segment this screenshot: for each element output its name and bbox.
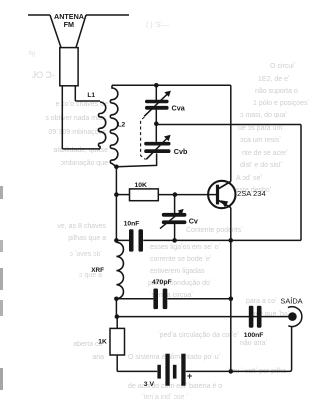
- svg-text:ɔca um resisʼ: ɔca um resisʼ: [240, 136, 281, 144]
- svg-text:corrente se bode ʼeʼ: corrente se bode ʼeʼ: [150, 255, 212, 263]
- svg-text:nte de se acerʼ: nte de se acerʼ: [242, 149, 288, 157]
- svg-text:1 pólo e posiçoesʼ: 1 pólo e posiçoesʼ: [253, 99, 309, 107]
- node 10nF left / XRF top: [114, 238, 119, 243]
- svg-text:para a coʼ: para a coʼ: [246, 297, 277, 305]
- inductor L1: [98, 102, 105, 149]
- node top rail / Cva: [154, 83, 159, 88]
- svg-text:O sistema é alimentado poʼ uʼ: O sistema é alimentado poʼ uʼ: [128, 353, 221, 361]
- svg-text:Cvb: Cvb: [174, 147, 188, 156]
- wire: right rail down: [300, 125, 302, 241]
- faint bleed-through text background: [29, 51, 108, 361]
- svg-text:ʼtenʼa indʼ ɔse ʼ: ʼtenʼa indʼ ɔse ʼ: [142, 393, 188, 401]
- svg-text:O circuiʼ: O circuiʼ: [270, 62, 296, 70]
- wire: 1K top lead: [116, 317, 118, 329]
- wire: 1K bottom lead: [116, 355, 118, 371]
- antenna top line right: [86, 14, 129, 16]
- capacitor 470pF plates: [153, 289, 167, 310]
- svg-text:fig: fig: [29, 51, 35, 57]
- inductor XRF: [116, 242, 123, 298]
- variable capacitor Cva: [144, 91, 171, 117]
- svg-text:ɈO Ↄ-: ɈO Ↄ-: [32, 70, 55, 80]
- wire: stem between Cva and Cvb: [155, 109, 157, 141]
- variable capacitor Cvb: [144, 135, 170, 160]
- svg-text:ʼpedʼa circulação da corʼeʼ: ʼpedʼa circulação da corʼeʼ: [158, 331, 239, 339]
- resistor 1K: [110, 328, 125, 355]
- wire: Cv stem bottom: [174, 224, 176, 240]
- wire: battery right to SAIDA ground: [186, 326, 292, 371]
- svg-text:XRF: XRF: [91, 267, 104, 274]
- svg-text:10nF: 10nF: [124, 220, 140, 227]
- wire: top rail L2 to collector: [112, 84, 231, 86]
- node emitter / battery rail: [229, 369, 234, 374]
- svg-text:A ɔdʼ seʼ: A ɔdʼ seʼ: [236, 174, 263, 182]
- page edge marks: [0, 186, 3, 390]
- svg-text:Cv: Cv: [189, 217, 198, 226]
- variable capacitor Cv: [160, 209, 186, 229]
- antenna funnel right side: [76, 15, 86, 48]
- wire: Cva stem top: [155, 85, 157, 100]
- wire: XRF bottom to output junction: [115, 299, 117, 317]
- wire: battery left: [117, 370, 157, 372]
- svg-text:10K: 10K: [135, 182, 148, 189]
- svg-text:de acordo com estʼ bateria é: de acordo com estʼ bateria é o: [128, 382, 222, 390]
- svg-text:ana: ana: [92, 354, 104, 361]
- svg-text:2SA 234: 2SA 234: [237, 189, 266, 198]
- svg-text:100nF: 100nF: [244, 332, 264, 339]
- wire: antenna right lead down: [74, 86, 76, 101]
- inductor L2: [110, 85, 118, 167]
- wire: antenna right lead to L1 top: [75, 100, 100, 102]
- node Cv bottom: [172, 238, 177, 243]
- svg-text:FM: FM: [64, 20, 74, 29]
- resistor 10K: [130, 189, 159, 201]
- node base/Cv top: [173, 192, 178, 197]
- svg-text:ɔ masi, do quaʼ: ɔ masi, do quaʼ: [240, 111, 288, 119]
- wire: L1 bottom to antenna left lead: [62, 148, 100, 150]
- wire: base wire 10K left: [116, 194, 129, 196]
- wire: 470pF node wire: [116, 298, 230, 300]
- wire: Cv stem top: [174, 195, 176, 213]
- svg-text:+: +: [187, 371, 192, 381]
- wire: left vertical L2 bottom to 10nF junction: [115, 167, 117, 241]
- capacitor 100nF plates: [249, 306, 262, 328]
- wire: base wire 10K to transistor base: [158, 194, 217, 196]
- svg-text:470pF: 470pF: [152, 279, 172, 286]
- node 470pF right / emitter: [229, 297, 234, 302]
- node Cva-Cvb junction: [154, 121, 159, 126]
- node XRF bottom / 470pF: [114, 297, 119, 302]
- svg-text:ɔmbinação que: ɔmbinação que: [61, 160, 109, 167]
- node L2 bottom: [114, 165, 119, 170]
- capacitor 10nF plates: [129, 229, 143, 251]
- transistor Q1 2SA234: [208, 181, 235, 208]
- svg-text:não suporta o: não suporta o: [255, 88, 298, 95]
- wire: collector vertical: [230, 85, 232, 181]
- antenna funnel left side: [50, 15, 61, 48]
- svg-text:Contente poderitsʼ: Contente poderitsʼ: [186, 226, 243, 234]
- svg-text:esses ligaʼos em seʼ oʼ: esses ligaʼos em seʼ oʼ: [150, 243, 220, 251]
- node output / 1K top: [115, 314, 120, 319]
- svg-text:( ) ʼSʼ—: ( ) ʼSʼ—: [146, 21, 169, 29]
- wire: output wire to SAIDA: [117, 316, 291, 318]
- svg-text:L1: L1: [87, 92, 95, 99]
- svg-text:ve, as 8 chaves: ve, as 8 chaves: [57, 223, 106, 230]
- svg-text:ɔ ʼaves ɔbʼ: ɔ ʼaves ɔbʼ: [69, 250, 102, 258]
- node emitter / C wire: [229, 238, 234, 243]
- svg-text:SAÍDA: SAÍDA: [280, 296, 302, 305]
- svg-text:não atraʼ: não atraʼ: [240, 339, 268, 347]
- wire: antenna left lead down: [61, 86, 63, 149]
- dashed gang link Cva-Cvb: [141, 117, 146, 160]
- wire: horizontal node C 10nF/Cv/emitter: [116, 239, 301, 241]
- wire: tank bottom Cvb to L2 bottom junction: [116, 153, 156, 166]
- output jack SAIDA: [288, 307, 302, 327]
- svg-text:1E2, de eʼ: 1E2, de eʼ: [258, 75, 290, 83]
- battery B1 3V: [157, 354, 185, 386]
- wire: node B to right rail: [156, 124, 301, 126]
- svg-text:estiverem ligadas: estiverem ligadas: [150, 268, 205, 275]
- antenna top line left: [28, 14, 50, 16]
- svg-text:Cva: Cva: [172, 104, 186, 113]
- node base/10K left: [114, 192, 119, 197]
- svg-text:distʼ e do sistʼ: distʼ e do sistʼ: [240, 161, 282, 169]
- svg-text:L2: L2: [118, 121, 126, 128]
- svg-text:pilhas que a: pilhas que a: [68, 235, 106, 242]
- antenna feeder rectangle: [60, 48, 78, 86]
- wire: emitter vertical down: [230, 208, 232, 372]
- svg-text:3 V: 3 V: [144, 381, 155, 388]
- svg-text:1K: 1K: [98, 339, 107, 346]
